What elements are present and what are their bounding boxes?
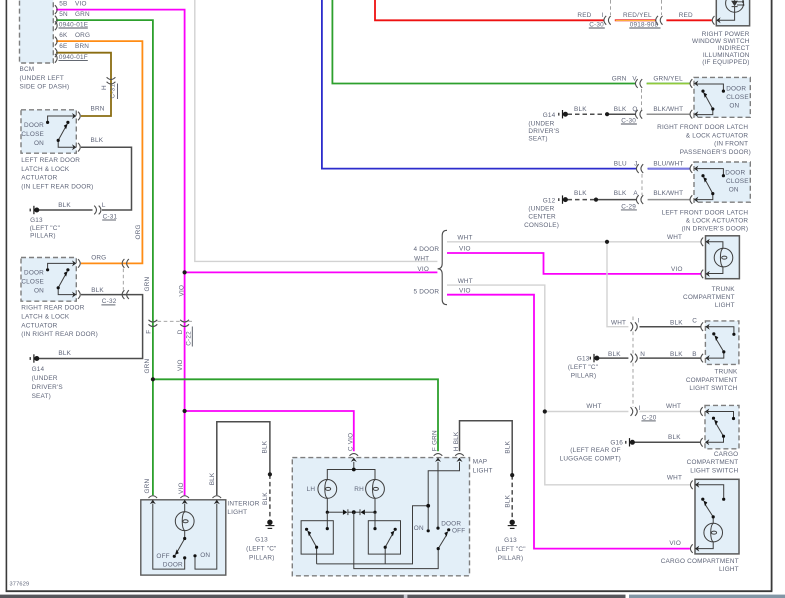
svg-text:(LEFT "C": (LEFT "C" [30, 225, 60, 232]
svg-text:(IN DRIVER'S DOOR): (IN DRIVER'S DOOR) [682, 226, 749, 233]
left front door BLU/WHT pin [690, 164, 698, 173]
svg-text:WHT: WHT [458, 278, 473, 285]
svg-text:C-31: C-31 [110, 84, 117, 99]
connector dashed link trunk switch rows [632, 317, 634, 323]
svg-text:H BLK: H BLK [453, 431, 460, 451]
svg-text:GRN: GRN [144, 277, 151, 292]
svg-text:6K: 6K [59, 32, 68, 39]
junction BLK left of map light [268, 472, 272, 476]
svg-text:(LEFT "C": (LEFT "C" [246, 545, 276, 552]
svg-text:CARGO: CARGO [714, 451, 738, 458]
interior light VIO pin [180, 496, 189, 504]
svg-text:BLK: BLK [91, 137, 104, 144]
right front door GRN/YEL pin [690, 79, 698, 88]
wire BLK/WHT C-30 to right front door pin [647, 113, 690, 115]
junction WHT 4door at trunk drop [605, 240, 609, 244]
svg-text:RED/YEL: RED/YEL [623, 12, 652, 19]
svg-text:LH: LH [307, 486, 316, 493]
junction BLK right of map light [510, 473, 514, 477]
svg-text:GRN: GRN [75, 11, 90, 18]
svg-text:(UNDER LEFT: (UNDER LEFT [20, 75, 64, 82]
cargo switch internals [707, 412, 734, 443]
ground G14 under drivers seat (bottom left) [30, 354, 39, 362]
svg-text:ACTUATOR: ACTUATOR [21, 322, 57, 329]
junction WHT 5door at C-20 row [543, 409, 547, 413]
cargo light VIO pin [690, 544, 699, 553]
junction VIO at map light feed [183, 409, 187, 413]
svg-text:RIGHT FRONT DOOR LATCH: RIGHT FRONT DOOR LATCH [657, 124, 748, 131]
svg-text:(UNDER: (UNDER [528, 120, 554, 127]
svg-text:BLU: BLU [614, 161, 627, 168]
bottom scrollbar dark segment [0, 595, 626, 598]
svg-text:WHT: WHT [666, 403, 681, 410]
ground G13 left C pillar (top left) [30, 206, 39, 214]
svg-text:C-29: C-29 [621, 203, 636, 210]
bottom scrollbar light segment [629, 595, 785, 598]
svg-text:ON: ON [34, 288, 44, 295]
connector C-30 Q on BLK row [635, 110, 642, 119]
connector C-22 dashed link GRN wire to VIO wire [158, 320, 193, 322]
connector dashed link trunk row2 to C-20 [632, 363, 634, 407]
svg-text:BLK: BLK [58, 202, 71, 209]
connector I on trunk switch row1 [631, 322, 638, 331]
map light internals: feed T [318, 462, 385, 515]
right front door switch internals [696, 84, 724, 115]
left rear door switch internals [48, 116, 75, 147]
svg-text:ORG: ORG [75, 32, 90, 39]
svg-text:TRUNK: TRUNK [712, 286, 736, 293]
svg-text:CLOSE: CLOSE [726, 178, 749, 185]
map light box [292, 458, 469, 576]
svg-text:MAP: MAP [473, 459, 487, 466]
interior light internals [153, 504, 217, 570]
left rear door latch box [21, 110, 76, 153]
svg-text:L: L [102, 202, 106, 209]
svg-text:LEFT REAR DOOR: LEFT REAR DOOR [21, 157, 80, 164]
svg-text:LEFT FRONT DOOR LATCH: LEFT FRONT DOOR LATCH [662, 209, 749, 216]
wire BLK trunk switch row1 (C side) [640, 326, 701, 328]
svg-text:VIO: VIO [459, 246, 471, 253]
svg-text:(UNDER: (UNDER [528, 206, 554, 213]
svg-text:TRUNK: TRUNK [714, 369, 738, 376]
svg-text:ON: ON [729, 103, 739, 110]
svg-text:C-22: C-22 [185, 331, 192, 346]
brace 4door/5door split [438, 230, 447, 304]
map light LH switch box [301, 521, 333, 554]
junction GRN at map light feed [151, 377, 155, 381]
svg-text:WHT: WHT [414, 256, 429, 263]
svg-text:F GRN: F GRN [432, 430, 439, 451]
svg-text:PILLAR): PILLAR) [30, 233, 56, 240]
right rear door BLK pin [72, 290, 80, 299]
svg-text:VIO: VIO [178, 482, 185, 494]
svg-text:ON: ON [414, 525, 424, 532]
svg-text:PILLAR): PILLAR) [249, 554, 275, 561]
svg-text:BCM: BCM [20, 66, 35, 73]
wire WHT C-20 row to cargo switch [545, 411, 629, 413]
svg-text:(IF EQUIPPED): (IF EQUIPPED) [702, 59, 749, 66]
wire BLK dashed G14 to junction (right front area) [568, 113, 608, 115]
left front door BLK/WHT pin [690, 195, 698, 204]
svg-text:DOOR: DOOR [163, 562, 183, 569]
map light LH switch [309, 512, 327, 564]
trunk light internals [707, 242, 733, 274]
right front door BLK/WHT pin [690, 110, 698, 119]
svg-text:G16: G16 [610, 440, 623, 447]
svg-text:(LEFT REAR OF: (LEFT REAR OF [570, 447, 620, 454]
svg-text:VIO: VIO [459, 287, 471, 294]
svg-text:ON: ON [729, 187, 739, 194]
wire BLK dashed to G13 ground right [511, 475, 513, 519]
svg-text:GRN/YEL: GRN/YEL [653, 76, 683, 83]
svg-text:LIGHT: LIGHT [473, 467, 493, 474]
svg-text:BLK/WHT: BLK/WHT [653, 106, 683, 113]
svg-text:(IN LEFT REAR DOOR): (IN LEFT REAR DOOR) [21, 183, 93, 190]
connector C-30 V on GRN row [635, 79, 642, 88]
svg-text:VIO: VIO [177, 359, 184, 371]
map light H BLK internal drop [428, 462, 459, 549]
svg-text:BLK: BLK [209, 472, 216, 485]
wire BLK cargo switch row2 from G16 [632, 441, 701, 443]
map light F GRN pin [434, 454, 443, 462]
svg-text:C-30: C-30 [589, 21, 604, 28]
svg-text:BLK: BLK [608, 351, 621, 358]
page frame right border [771, 0, 773, 591]
svg-text:(IN RIGHT REAR DOOR): (IN RIGHT REAR DOOR) [21, 331, 98, 338]
svg-text:LUGGAGE COMPT): LUGGAGE COMPT) [560, 456, 621, 463]
interior light GRN pin [149, 496, 158, 504]
svg-text:LIGHT: LIGHT [719, 566, 739, 573]
svg-text:RIGHT REAR DOOR: RIGHT REAR DOOR [21, 305, 84, 312]
wire GRN from top to right front door connector [332, 0, 635, 84]
junction BLK at G12 dashed [594, 198, 598, 202]
cargo light WHT pin [690, 481, 699, 490]
svg-text:I: I [602, 12, 604, 19]
BCM box [20, 0, 54, 63]
connector C-20 I on WHT row [631, 407, 638, 416]
svg-text:Q: Q [632, 106, 637, 113]
connector 0918-908 dashed line above RED row [661, 0, 663, 15]
4 door VIO branch to trunk light [447, 253, 701, 274]
interior light BLK pin [213, 496, 222, 504]
wire RED/YEL between connectors [615, 19, 656, 21]
svg-text:ORG: ORG [135, 224, 142, 239]
connector 0918-908 on RED row [656, 16, 663, 25]
svg-text:G12: G12 [543, 197, 556, 204]
ground G13 trunk switch row [590, 354, 599, 362]
connector C-32 dashed link ORG row to BLK row [122, 269, 124, 290]
connector C-31 L on BLK row [94, 206, 101, 215]
svg-text:COMPARTMENT: COMPARTMENT [687, 459, 739, 466]
connector C-32 on ORG row [122, 259, 129, 268]
trunk switch C pin [701, 322, 710, 331]
svg-text:LIGHT SWITCH: LIGHT SWITCH [689, 385, 737, 392]
trunk compartment light switch box [705, 321, 739, 365]
svg-text:BRN: BRN [75, 43, 89, 50]
ground G14 under drivers seat (right, dashed row) [559, 110, 568, 118]
wire BLK/WHT C-29 to left front door pin [648, 199, 690, 201]
svg-text:SEAT): SEAT) [32, 393, 51, 400]
svg-text:PASSENGER'S DOOR): PASSENGER'S DOOR) [680, 149, 751, 156]
svg-text:VIO: VIO [669, 540, 681, 547]
svg-text:BLK: BLK [574, 190, 587, 197]
svg-text:DOOR: DOOR [725, 170, 745, 177]
svg-text:WINDOW SWITCH: WINDOW SWITCH [692, 38, 750, 45]
svg-text:A: A [633, 190, 638, 197]
connector C-29 J on BLU row [636, 164, 643, 173]
svg-text:VIO: VIO [671, 266, 683, 273]
svg-text:COMPARTMENT: COMPARTMENT [683, 294, 735, 301]
svg-text:BLK: BLK [668, 434, 681, 441]
svg-text:WHT: WHT [667, 234, 682, 241]
trunk switch B pin [701, 354, 710, 363]
svg-text:0940-01E: 0940-01E [59, 21, 88, 28]
wire WHT main from top down to brace [195, 0, 438, 261]
svg-text:LIGHT: LIGHT [227, 509, 247, 516]
connector C-22 on GRN vertical [149, 320, 158, 327]
map light common wire to BLK [317, 506, 439, 569]
svg-text:5 DOOR: 5 DOOR [413, 288, 439, 295]
wire BLU/WHT connector to left front door pin [648, 168, 690, 170]
svg-text:ORG: ORG [91, 254, 106, 261]
ground G16 cargo switch row [626, 438, 635, 446]
svg-text:C VIO: C VIO [347, 433, 354, 451]
svg-text:CONSOLE): CONSOLE) [524, 222, 559, 229]
svg-text:INDIRECT: INDIRECT [718, 45, 750, 52]
connector C-32 on BLK row [122, 290, 129, 299]
svg-text:0918-908: 0918-908 [630, 21, 659, 28]
ground G13 left C pillar below interior area [265, 520, 274, 528]
trunk light WHT pin [701, 238, 710, 247]
svg-text:CARGO COMPARTMENT: CARGO COMPARTMENT [661, 558, 739, 565]
svg-text:DRIVER'S: DRIVER'S [32, 384, 63, 391]
wire ORG from BCM 6K: right, down, left to right rear door [56, 41, 142, 263]
svg-text:OFF: OFF [452, 527, 465, 534]
wire BLK junction to C-30 Q [607, 113, 635, 115]
svg-text:DRIVER'S: DRIVER'S [528, 128, 559, 135]
svg-text:GRN: GRN [144, 359, 151, 374]
svg-text:377629: 377629 [10, 581, 30, 587]
5 door WHT branch down to cargo area [447, 285, 690, 485]
BCM pins 5B 5N 0940-01E 6K 6E 0940-01F [55, 5, 57, 63]
cargo compartment light switch box [705, 405, 739, 448]
svg-text:BLK: BLK [91, 287, 104, 294]
wire VIO branch to brace [185, 271, 438, 273]
wire RED connector to power window switch pin [666, 19, 711, 21]
svg-text:6E: 6E [59, 43, 67, 50]
connector N on trunk switch row2 [631, 354, 638, 363]
svg-text:GRN: GRN [144, 479, 151, 494]
right front door latch box [694, 77, 750, 117]
svg-text:RED: RED [679, 12, 693, 19]
svg-text:BLU/WHT: BLU/WHT [653, 161, 683, 168]
svg-text:(UNDER: (UNDER [32, 375, 58, 382]
wire BLK map light H pin up right and down (solid) [460, 421, 513, 475]
svg-text:H: H [101, 85, 108, 90]
svg-text:LATCH & LOCK: LATCH & LOCK [21, 166, 70, 173]
svg-text:& LOCK ACTUATOR: & LOCK ACTUATOR [686, 132, 749, 139]
map light H BLK pin [455, 454, 464, 462]
map light RH switch [375, 512, 393, 564]
svg-text:G14: G14 [543, 112, 556, 119]
ground G13 left C pillar right of map light [508, 520, 517, 528]
wire BLK dashed G12 to junction [568, 199, 597, 201]
svg-text:WHT: WHT [667, 475, 682, 482]
wire BLK interior light up and to G13 (solid part) [217, 422, 270, 496]
svg-text:RED: RED [577, 12, 591, 19]
svg-text:C: C [692, 317, 697, 324]
svg-text:G13: G13 [504, 537, 517, 544]
svg-text:COMPARTMENT: COMPARTMENT [686, 377, 738, 384]
connector C-30 dashed line above RED row [610, 0, 612, 15]
svg-text:BLK: BLK [614, 106, 627, 113]
connector C-29 A on BLK row [636, 195, 643, 204]
svg-text:WHT: WHT [457, 235, 472, 242]
ground G12 under center console [559, 195, 568, 203]
wire VIO from BCM 5B: right then down left column [56, 10, 185, 496]
svg-text:ILLUMINATION: ILLUMINATION [703, 52, 750, 59]
svg-text:ACTUATOR: ACTUATOR [21, 175, 57, 182]
svg-text:WHT: WHT [611, 319, 626, 326]
svg-text:CENTER: CENTER [528, 214, 556, 221]
svg-text:D: D [177, 329, 184, 334]
right rear door latch box [21, 258, 76, 302]
svg-text:C-32: C-32 [102, 298, 117, 305]
svg-text:DOOR: DOOR [24, 270, 44, 277]
svg-text:B: B [692, 351, 696, 358]
svg-text:G13: G13 [577, 355, 590, 362]
left front door latch box [694, 162, 750, 202]
junction BLK at G14 dashed [605, 112, 609, 116]
wire WHT drop from 4door line to trunk switch row [607, 242, 628, 327]
trunk switch internals [707, 327, 734, 358]
svg-text:G13: G13 [255, 536, 268, 543]
svg-text:VIO: VIO [417, 266, 429, 273]
connector C-31 H on BRN vertical [107, 77, 116, 84]
svg-text:BLK: BLK [670, 351, 683, 358]
svg-text:(LEFT "C": (LEFT "C" [495, 546, 525, 553]
wire BLK left rear door to G13 via C-31 L [81, 147, 132, 210]
right rear door ORG pin [72, 259, 80, 268]
wire VIO branch to map light C pin [185, 411, 354, 451]
svg-text:PILLAR): PILLAR) [571, 372, 597, 379]
svg-text:5N: 5N [59, 11, 68, 18]
svg-text:N: N [640, 351, 645, 358]
connector C-29 dashed link BLU row to BLK row [641, 174, 643, 195]
4 door WHT branch to trunk light [447, 241, 701, 243]
svg-text:INTERIOR: INTERIOR [227, 501, 259, 508]
svg-text:BLK: BLK [262, 492, 269, 505]
wire BRN from BCM 6E: right, down through C-31, left to left rear door [56, 53, 111, 116]
svg-text:0940-01F: 0940-01F [59, 54, 88, 61]
svg-text:I: I [639, 405, 641, 412]
svg-text:RH: RH [354, 486, 364, 493]
svg-text:WHT: WHT [586, 403, 601, 410]
svg-text:LIGHT SWITCH: LIGHT SWITCH [690, 467, 738, 474]
bottom scrollbar notch [404, 595, 408, 598]
svg-text:BLK: BLK [614, 190, 627, 197]
wire BLK junction to C-29 A [596, 199, 637, 201]
svg-text:BLK/WHT: BLK/WHT [653, 190, 683, 197]
svg-text:ON: ON [200, 552, 210, 559]
trunk light VIO pin [701, 270, 710, 279]
svg-text:CLOSE: CLOSE [21, 279, 44, 286]
right rear door switch internals [48, 263, 75, 294]
svg-text:C-31: C-31 [103, 213, 118, 220]
svg-text:GRN: GRN [612, 76, 627, 83]
svg-text:I: I [638, 317, 640, 324]
page frame bottom border [6, 590, 773, 592]
trunk compartment light box [706, 236, 740, 279]
svg-text:(LEFT "C": (LEFT "C" [568, 364, 598, 371]
svg-text:ON: ON [34, 140, 44, 147]
svg-text:V: V [632, 76, 637, 83]
junction VIO at brace feed [183, 270, 187, 274]
map light C VIO pin [350, 454, 359, 462]
svg-text:G13: G13 [30, 217, 43, 224]
svg-text:DOOR: DOOR [24, 122, 44, 129]
page frame left border [5, 0, 7, 591]
svg-text:VIO: VIO [75, 0, 87, 7]
interior light box [141, 500, 226, 575]
cargo switch BLK pin [700, 438, 709, 447]
wire BLK right rear door through C-32 down to G14 [39, 295, 143, 359]
svg-text:5B: 5B [59, 0, 67, 7]
svg-text:BLK: BLK [670, 319, 683, 326]
svg-text:SIDE OF DASH): SIDE OF DASH) [20, 84, 70, 91]
svg-text:BLK: BLK [262, 440, 269, 453]
left rear door BRN pin [72, 112, 80, 121]
svg-text:PILLAR): PILLAR) [498, 555, 524, 562]
svg-text:CLOSE: CLOSE [21, 131, 44, 138]
cargo switch WHT pin [700, 407, 709, 416]
svg-text:VIO: VIO [178, 285, 185, 297]
svg-text:CLOSE: CLOSE [726, 94, 749, 101]
svg-text:F: F [145, 330, 152, 334]
svg-text:OFF: OFF [156, 553, 169, 560]
svg-text:& LOCK ACTUATOR: & LOCK ACTUATOR [686, 217, 749, 224]
svg-text:J: J [634, 161, 637, 168]
svg-text:SEAT): SEAT) [528, 136, 547, 143]
svg-text:(IN FRONT: (IN FRONT [714, 141, 748, 148]
connector C-30 I on RED row [604, 16, 611, 25]
right power window switch box [716, 0, 749, 26]
svg-text:BLK: BLK [574, 106, 587, 113]
svg-text:BLK: BLK [505, 494, 512, 507]
power window switch LED internals [718, 0, 744, 20]
left front door switch internals [696, 169, 724, 200]
left rear door BLK pin [72, 143, 80, 152]
map light RH switch box [368, 521, 400, 554]
svg-text:4 DOOR: 4 DOOR [413, 246, 439, 253]
svg-text:C-20: C-20 [642, 414, 657, 421]
wire RED from top to C-30 [375, 0, 604, 20]
map light diode right [361, 510, 365, 515]
svg-text:LIGHT: LIGHT [715, 302, 735, 309]
svg-text:G14: G14 [32, 366, 45, 373]
svg-text:BLK: BLK [505, 440, 512, 453]
wire GRN/YEL connector to right front door pin [647, 83, 690, 85]
5 door VIO branch down to cargo light [447, 295, 690, 549]
svg-text:LATCH & LOCK: LATCH & LOCK [21, 314, 70, 321]
svg-text:BRN: BRN [91, 105, 105, 112]
power window switch RED pin [712, 16, 720, 25]
cargo light internals [697, 485, 724, 549]
cargo compartment light box [695, 479, 739, 554]
wire GRN branch to map light F pin [153, 379, 438, 451]
wire BLK dashed to G13 ground left [269, 474, 271, 519]
svg-text:BLK: BLK [58, 350, 71, 357]
